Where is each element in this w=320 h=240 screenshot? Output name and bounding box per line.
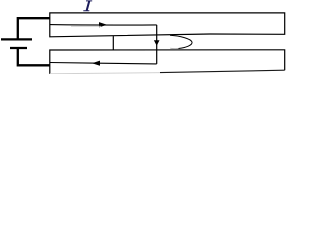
- current arrow left: [92, 61, 100, 66]
- bottom slab lower edge faint left part: [50, 73, 160, 74]
- battery negative plate: [10, 47, 27, 49]
- scan shadow under current line: [71, 25, 101, 27]
- bottom slab lower edge right part: [160, 70, 285, 72]
- current line in top slab: [50, 24, 157, 26]
- current arrow down on rod: [154, 40, 160, 46]
- current line in bottom slab: [50, 63, 157, 64]
- rod connecting slabs: [156, 25, 158, 64]
- bottom slab conductor sides: [50, 50, 285, 74]
- wire battery negative to bottom slab: [18, 48, 50, 65]
- battery positive plate: [1, 38, 32, 40]
- current arrow right (I): [99, 22, 107, 27]
- field loop fading tail: [170, 47, 178, 49]
- wire battery positive to top slab: [18, 18, 50, 39]
- connecting line between slabs: [112, 36, 114, 50]
- top slab conductor: [50, 13, 285, 37]
- field loop around rod: [170, 35, 192, 48]
- label I (current): [83, 0, 92, 11]
